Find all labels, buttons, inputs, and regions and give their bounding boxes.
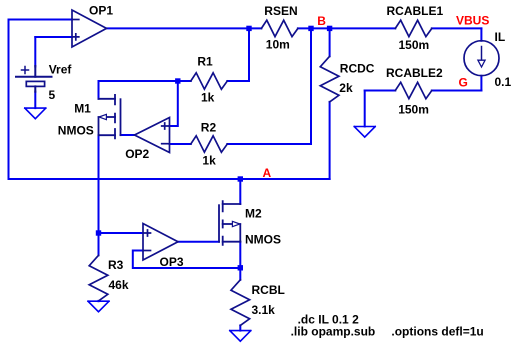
wire R2 right lead to node B <box>227 28 311 144</box>
wire OP1 minus input <box>9 19 73 21</box>
wire IL bottom to G row <box>480 76 482 91</box>
svg-text:.lib opamp.sub: .lib opamp.sub <box>291 325 376 339</box>
svg-text:46k: 46k <box>109 278 129 292</box>
wire node B down to RCDC <box>329 28 331 56</box>
svg-text:G: G <box>459 75 468 89</box>
wire RCABLE2 left lead <box>365 90 396 92</box>
op-amp U2 OP2 triangle (mirrored) <box>135 118 170 153</box>
svg-text:RCDC: RCDC <box>340 61 375 75</box>
wire RCBL top lead <box>239 268 241 280</box>
svg-text:150m: 150m <box>398 102 429 116</box>
voltage source Vref battery <box>16 66 52 92</box>
ground below RCABLE2 <box>354 127 375 138</box>
wire node A row <box>9 178 330 180</box>
svg-text:Vref: Vref <box>49 62 73 76</box>
svg-text:.options defl=1u: .options defl=1u <box>391 325 483 339</box>
wire OP1 plus input <box>35 36 72 38</box>
svg-text:0.1: 0.1 <box>495 75 512 89</box>
resistor RCDC (vertical) <box>320 56 339 102</box>
wire OP3 minus feedback jog <box>133 251 241 269</box>
transistor M1 NMOS (mirrored, gate right) <box>99 95 121 138</box>
junction node B left <box>308 26 313 31</box>
svg-text:NMOS: NMOS <box>245 232 281 246</box>
svg-text:1k: 1k <box>202 154 216 168</box>
wire RCABLE1 to VBUS corner <box>432 27 482 29</box>
svg-text:R3: R3 <box>108 258 124 272</box>
svg-text:M2: M2 <box>245 206 262 220</box>
transistor M2 NMOS (gate left) <box>219 201 240 245</box>
wire VBUS down to IL top <box>480 28 482 40</box>
junction RSEN left <box>246 26 251 31</box>
svg-text:OP3: OP3 <box>160 255 184 269</box>
svg-text:OP2: OP2 <box>125 147 149 161</box>
wire OP2 minus to R2 <box>170 143 191 145</box>
wire RCDC bottom to node A row <box>329 102 331 179</box>
resistor RSEN <box>261 20 298 36</box>
op-amp U1 OP1 triangle <box>72 10 107 47</box>
wire R3 node to OP3 plus <box>99 232 144 234</box>
svg-text:RCBL: RCBL <box>252 283 285 297</box>
svg-text:M1: M1 <box>74 102 91 116</box>
svg-text:A: A <box>263 166 272 180</box>
ground below RCBL <box>230 331 251 342</box>
wire OP2 output to M1 gate <box>121 134 135 136</box>
wire Vref to ground <box>34 92 36 109</box>
junction M2 source RCBL <box>238 265 243 270</box>
resistor RCABLE2 <box>395 82 432 98</box>
resistor R1 <box>191 73 228 89</box>
current source IL <box>464 41 499 76</box>
wire M2 source down <box>239 242 241 268</box>
svg-text:2k: 2k <box>339 81 353 95</box>
svg-text:R1: R1 <box>197 54 213 68</box>
wire R1 right lead <box>227 80 249 82</box>
svg-text:1k: 1k <box>201 90 215 104</box>
svg-text:VBUS: VBUS <box>456 13 489 27</box>
wire OP3 output to M2 gate <box>178 241 219 243</box>
wire M1 drain row to R1 <box>99 80 191 82</box>
junction node A M2 drain <box>238 176 243 181</box>
ground below R3 <box>88 301 109 312</box>
svg-text:150m: 150m <box>399 38 430 52</box>
wire M2 drain up to node A <box>239 179 241 204</box>
wire OP1 output to RSEN <box>107 27 262 29</box>
wire RCBL bottom to ground <box>239 325 241 330</box>
svg-text:10m: 10m <box>266 38 290 52</box>
junction R3 top node <box>96 230 101 235</box>
svg-text:NMOS: NMOS <box>58 123 94 137</box>
svg-text:RCABLE2: RCABLE2 <box>386 66 443 80</box>
svg-text:RCABLE1: RCABLE1 <box>387 4 444 18</box>
wire R3 bottom to ground <box>98 300 100 302</box>
svg-text:3.1k: 3.1k <box>252 303 276 317</box>
resistor RCBL (vertical) <box>231 280 250 326</box>
wire R1 node down to OP2 plus <box>170 81 178 126</box>
wire node B to RCABLE1 <box>330 27 396 29</box>
svg-text:RSEN: RSEN <box>264 4 297 18</box>
wire G row to RCABLE2 <box>432 90 482 92</box>
resistor R3 (vertical) <box>89 255 108 301</box>
svg-text:OP1: OP1 <box>89 3 113 17</box>
wire RCABLE2 down to ground <box>364 91 366 127</box>
wire R3 top lead <box>98 233 100 255</box>
junction node B right <box>327 26 332 31</box>
op-amp U3 OP3 triangle <box>143 224 178 261</box>
wire left vertical to node A row <box>8 20 10 180</box>
wire R1 up to RSEN left node <box>248 28 250 81</box>
wire RSEN to node B <box>298 27 330 29</box>
svg-text:R2: R2 <box>201 120 217 134</box>
wire M1 drain vertical <box>98 81 100 99</box>
wire plus input down to Vref <box>34 37 36 67</box>
svg-text:5: 5 <box>49 88 56 102</box>
svg-text:B: B <box>317 14 326 28</box>
svg-text:IL: IL <box>495 30 506 44</box>
resistor R2 <box>191 136 228 152</box>
resistor RCABLE1 <box>395 20 432 36</box>
wire M1 source down to R3 node <box>98 135 100 233</box>
junction R1 left node <box>175 78 180 83</box>
ground below Vref <box>25 108 46 119</box>
